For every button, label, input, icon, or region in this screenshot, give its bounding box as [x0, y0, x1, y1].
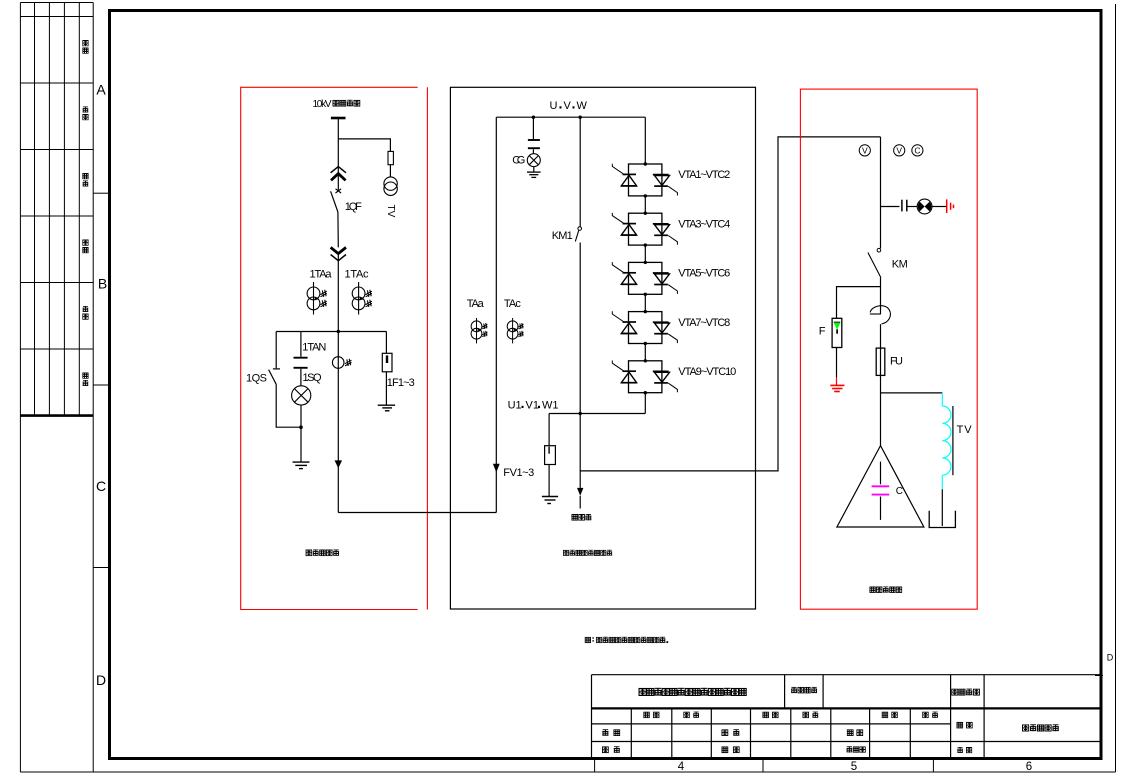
capacitor 1TAN: [294, 358, 308, 368]
svg-text:B: B: [98, 276, 107, 292]
wire main incoming: [337, 118, 339, 191]
svg-text:TAa: TAa: [467, 298, 485, 310]
svg-text:1QF: 1QF: [345, 201, 362, 213]
arrester FV1~3 arrow: [493, 464, 500, 473]
svg-text:TV: TV: [957, 424, 973, 436]
svg-text:V1: V1: [526, 400, 539, 412]
wire KM1 branch: [579, 117, 581, 227]
wire branch to arrester: [837, 287, 881, 319]
wire inner lower: [880, 497, 882, 520]
wire 1TAN branch: [300, 332, 302, 357]
thyristor pair VTA7~VTC8: [612, 310, 730, 345]
svg-text:1SQ: 1SQ: [303, 372, 322, 384]
ground: [527, 172, 541, 177]
breaker 1QF blade: [331, 191, 338, 212]
wire: [532, 149, 534, 154]
wire: [644, 196, 646, 213]
svg-text:KM: KM: [892, 259, 908, 271]
wire thyristor chain bottom: [644, 393, 646, 414]
cabinet 3 red enclosure: [800, 89, 977, 609]
svg-text:VTA9~VTC10: VTA9~VTC10: [678, 366, 736, 378]
bottom margin zone numbers: [678, 761, 1032, 773]
wire: [300, 369, 302, 386]
svg-text:VTA7~VTC8: VTA7~VTC8: [678, 317, 730, 329]
wire to middle cabinet: [338, 512, 496, 514]
svg-text:F: F: [819, 326, 826, 338]
cabinet 1 red enclosure: [241, 87, 428, 609]
capacitor (indicator): [902, 200, 907, 212]
cell: project name label: [952, 689, 980, 695]
lamp indicator: [917, 199, 932, 214]
svg-text:FU: FU: [890, 356, 903, 368]
node junction: [579, 412, 582, 415]
title block grid: [592, 675, 1101, 758]
label to motor: [572, 514, 591, 520]
lamp 1SQ: [292, 386, 311, 405]
wire (cyan): [941, 393, 943, 406]
svg-text:C: C: [96, 478, 106, 494]
wire 1F branch: [385, 332, 387, 354]
svg-text:D: D: [96, 672, 106, 688]
svg-text:V: V: [896, 145, 902, 155]
wire: [907, 206, 917, 208]
wire: [880, 348, 882, 446]
svg-text:C: C: [914, 145, 920, 155]
inductor TV coil (cyan): [942, 406, 951, 475]
svg-text:1TAN: 1TAN: [302, 342, 326, 354]
wire: [337, 254, 339, 332]
row3 labels: [602, 730, 862, 736]
wire: [579, 414, 581, 488]
svg-text:10kV: 10kV: [313, 99, 332, 110]
disconnector 1QS blade: [269, 370, 277, 385]
disconnector 1QS contact bar: [273, 368, 280, 370]
scale label: [957, 747, 972, 753]
ground (red): [830, 385, 844, 391]
row2 signature/date labels: [644, 712, 938, 718]
arrow to motor cable: [577, 488, 583, 496]
wire: [276, 384, 301, 427]
wire: [548, 465, 550, 497]
cabinet 2 name label: [563, 550, 612, 556]
svg-text:6: 6: [1026, 761, 1032, 773]
core bar: [952, 406, 954, 475]
wire: [644, 245, 646, 262]
svg-text:1F1~3: 1F1~3: [387, 377, 415, 389]
wire: [880, 324, 882, 348]
cabinet 2 enclosure: [450, 87, 755, 609]
wire: [337, 212, 339, 247]
capacitor bank delta: [837, 446, 924, 527]
wire: [941, 489, 943, 526]
wire: [932, 206, 947, 208]
svg-text:W: W: [577, 100, 588, 112]
wire: [579, 496, 581, 509]
wire 1QS branch: [275, 332, 277, 369]
drawing number label: [957, 722, 972, 728]
zone tick right margin: [1095, 675, 1103, 677]
wire: [579, 243, 581, 414]
cabinet 1 name label: [306, 550, 339, 556]
svg-text:D: D: [1107, 653, 1114, 663]
arrester F: [832, 318, 842, 347]
drawing title: primary system diagram: [1022, 725, 1058, 732]
fuse (TV branch): [388, 151, 393, 164]
svg-text:VTA3~VTC4: VTA3~VTC4: [678, 218, 730, 230]
svg-text:C: C: [896, 486, 903, 497]
node junction: [337, 330, 340, 333]
svg-text:1QS: 1QS: [246, 373, 267, 385]
wire thyristor riser: [644, 117, 646, 164]
wire: [385, 372, 387, 405]
cabinet 3 name label: [870, 587, 902, 593]
wire main outgoing: [337, 332, 339, 513]
current transformer TAa: [471, 318, 487, 343]
lamp CG: [527, 154, 540, 167]
label U V W: [550, 100, 588, 112]
svg-text:W1: W1: [542, 400, 559, 412]
capacitor cell: [545, 446, 556, 465]
wire: [533, 167, 535, 172]
cell: ordering unit label: [791, 687, 817, 693]
wire: [836, 348, 838, 378]
thyristor pair VTA1~VTC2: [612, 162, 730, 197]
thyristor pair VTA9~VTC10: [612, 359, 736, 394]
row4 labels: [602, 747, 865, 753]
capacitor CG: [528, 140, 540, 148]
svg-text:5: 5: [851, 761, 857, 773]
contactor KM blade: [868, 253, 881, 278]
fuse 1F1~3: [382, 353, 392, 372]
arrow on feeder: [335, 460, 343, 468]
wire RC branch: [548, 414, 550, 446]
current transformer 1TAc: [352, 282, 372, 315]
svg-text:VTA5~VTC6: VTA5~VTC6: [678, 268, 730, 280]
svg-text:U1: U1: [508, 400, 522, 412]
current transformer (zero sequence) on feeder: [332, 357, 351, 369]
contactor KM1 fixed contact: [578, 227, 582, 231]
svg-text:1TAc: 1TAc: [345, 269, 370, 281]
drawout contact upper (chevrons): [331, 167, 346, 181]
contactor KM fixed contact: [877, 248, 881, 252]
wire output bus U1V1W1: [549, 413, 645, 415]
wire: [389, 165, 391, 177]
svg-text:V: V: [862, 145, 868, 155]
svg-text:V: V: [564, 100, 572, 112]
breaker 1QF fixed contact x: [336, 189, 342, 193]
zone letters left margin: [96, 82, 107, 689]
wire: [880, 278, 882, 314]
company name text: [639, 688, 746, 695]
bottom margin zone ticks: [595, 759, 934, 772]
fuse FU: [876, 348, 885, 375]
contactor KM1 blade: [575, 230, 579, 241]
wire left riser: [495, 117, 497, 512]
wire top bus: [496, 116, 645, 118]
open cell (cup): [929, 511, 955, 528]
instrument voltmeter: [859, 145, 870, 156]
ground (rotated, red): [947, 199, 954, 213]
strip row labels (vertical 2-char CJK): [83, 41, 89, 387]
wire: [644, 294, 646, 311]
left revision strip table: [20, 3, 93, 773]
ground: [542, 497, 558, 504]
wire (red stub): [836, 377, 838, 385]
wire inner: [880, 462, 882, 485]
thyristor pair VTA3~VTC4: [612, 212, 730, 247]
svg-text:A: A: [96, 82, 106, 98]
svg-text:U: U: [550, 100, 558, 112]
svg-text:TV: TV: [385, 205, 396, 218]
wire TV branch: [881, 392, 943, 394]
svg-text:CG: CG: [512, 155, 525, 167]
zone ticks left margin: [93, 193, 108, 567]
node junction: [532, 116, 535, 119]
label 10kV incoming line: [313, 99, 360, 110]
svg-text:VTA1~VTC2: VTA1~VTC2: [678, 169, 730, 181]
wire voltage indicator branch: [881, 206, 900, 208]
current transformer TAc: [507, 318, 523, 343]
instrument meter C: [912, 145, 923, 156]
note text below cabinets: [585, 637, 668, 643]
wire: [644, 344, 646, 361]
svg-text:FV1~3: FV1~3: [503, 467, 534, 479]
wire CG branch: [532, 117, 534, 139]
node junction: [299, 425, 303, 429]
label U1 V1 W1: [508, 400, 559, 412]
wire: [300, 405, 302, 462]
wire main riser: [880, 137, 882, 249]
current transformer (hook): [870, 306, 891, 324]
ground: [293, 462, 310, 469]
voltage transformer TV: [384, 177, 397, 195]
svg-text:TAc: TAc: [504, 298, 522, 310]
wire TV branch: [338, 139, 390, 152]
svg-text:1TAa: 1TAa: [310, 269, 333, 281]
current transformer 1TAa: [307, 282, 327, 315]
capacitor C (magenta): [872, 486, 890, 494]
ground: [378, 405, 395, 411]
drawout contact lower (chevrons): [331, 247, 346, 260]
svg-text:4: 4: [678, 761, 685, 773]
bus terminal bar: [331, 117, 346, 120]
wire (cyan): [941, 475, 943, 489]
wire link to right cabinet: [580, 137, 880, 471]
svg-text:KM1: KM1: [552, 230, 573, 242]
node junction: [579, 116, 582, 119]
thyristor pair VTA5~VTC6: [612, 261, 730, 296]
wire lower bus: [276, 331, 386, 333]
instrument voltmeter: [894, 145, 905, 156]
